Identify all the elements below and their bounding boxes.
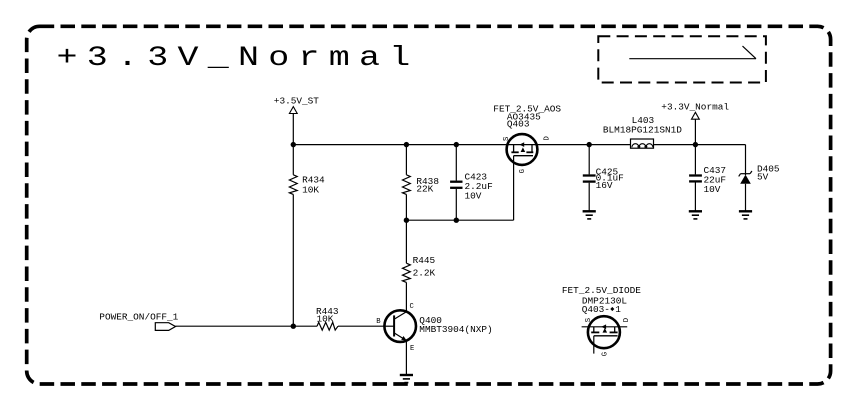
svg-text:E: E (410, 345, 414, 353)
svg-text:S: S (585, 318, 593, 322)
ground for Q400 (400, 375, 413, 383)
node junction dot D (404, 218, 409, 223)
resistor R438 (403, 145, 440, 221)
wire gate rail (406, 219, 513, 221)
svg-text:2.2K: 2.2K (413, 267, 436, 278)
revision box (598, 36, 766, 82)
svg-text:G: G (519, 169, 527, 173)
svg-text:S: S (503, 137, 511, 141)
capacitor C423 (450, 145, 493, 221)
node junction dot C (454, 142, 459, 147)
capacitor C425 (583, 142, 624, 211)
svg-text:G: G (602, 352, 610, 356)
svg-text:1: 1 (615, 304, 621, 315)
transistor Q400 (376, 303, 492, 375)
node junction dot E (454, 218, 459, 223)
power symbol +3.3V_Normal (661, 101, 729, 144)
diode D405 zener (739, 145, 780, 212)
transistor Q403 FET_2.5V_AOS (493, 104, 561, 174)
svg-text:MMBT3904(NXP): MMBT3904(NXP) (419, 324, 492, 335)
svg-text:R445: R445 (413, 255, 436, 266)
node junction dot A (291, 142, 296, 147)
capacitor C437 (689, 145, 726, 212)
svg-text:BLM18PG121SN1D: BLM18PG121SN1D (603, 125, 682, 136)
svg-text:5V: 5V (757, 172, 769, 183)
revision arrow (629, 46, 756, 59)
svg-text:C: C (410, 303, 415, 311)
svg-text:10K: 10K (317, 313, 334, 324)
wire drain rail (654, 144, 746, 146)
svg-text:+3.5V_ST: +3.5V_ST (274, 95, 320, 106)
ground for C425 (583, 211, 596, 219)
wire gate drop (513, 156, 515, 221)
resistor R443 (176, 306, 385, 330)
svg-text:10V: 10V (465, 191, 482, 202)
power symbol +3.5V_ST (274, 95, 320, 144)
svg-text:Q403-: Q403- (582, 304, 610, 315)
transistor Q403-1 FET_2.5V_DIODE (562, 285, 641, 356)
ground for C437 (689, 211, 702, 219)
svg-text:+3.3V_Normal: +3.3V_Normal (661, 101, 729, 112)
svg-text:22K: 22K (416, 183, 433, 194)
ground for D405 (739, 211, 752, 219)
svg-text:B: B (376, 318, 381, 326)
node junction dot F (693, 142, 698, 147)
svg-text:D: D (623, 318, 631, 322)
svg-text:POWER_ON/OFF_1: POWER_ON/OFF_1 (99, 312, 178, 323)
inductor L403 (603, 115, 682, 148)
svg-text:10K: 10K (302, 185, 319, 196)
node junction dot G (291, 324, 296, 329)
node junction dot B (404, 142, 409, 147)
svg-text:D: D (543, 136, 551, 140)
svg-text:Q403: Q403 (507, 119, 530, 130)
resistor R445 (403, 220, 436, 312)
svg-text:16V: 16V (596, 180, 613, 191)
svg-text:+3.3V_Normal: +3.3V_Normal (57, 42, 420, 74)
wire top rail (293, 144, 630, 146)
port POWER_ON/OFF_1 (99, 312, 178, 331)
resistor R434 (289, 145, 325, 327)
svg-text:10V: 10V (704, 184, 721, 195)
